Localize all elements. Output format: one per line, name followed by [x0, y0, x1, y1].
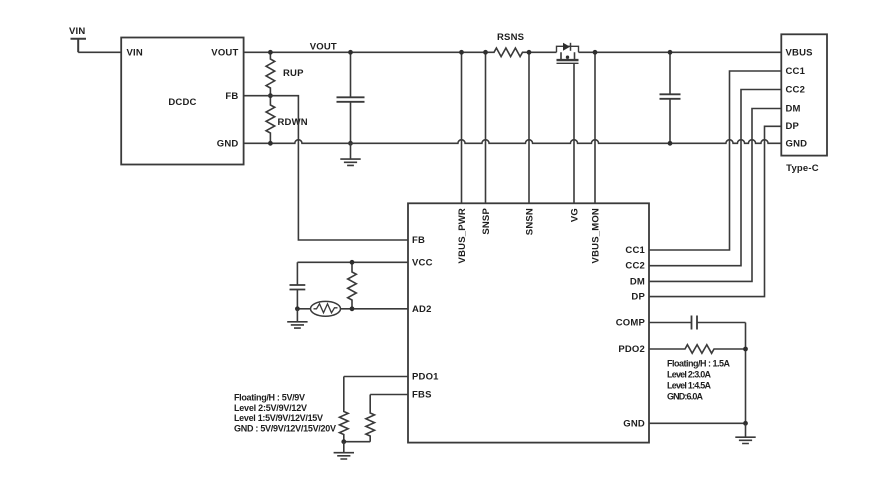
svg-text:DM: DM [786, 104, 801, 115]
svg-text:VCC: VCC [412, 258, 433, 269]
node VOUT/RUP [268, 50, 273, 55]
wire FBS [370, 394, 408, 396]
svg-text:VBUS: VBUS [786, 48, 813, 59]
svg-text:Level 2:5V/9V/12V: Level 2:5V/9V/12V [234, 403, 307, 413]
node PDO2/R6 [743, 347, 748, 352]
PD controller U1 [408, 203, 649, 442]
svg-text:RUP: RUP [283, 68, 304, 79]
node R4/R5 [341, 439, 346, 444]
svg-text:COMP: COMP [616, 318, 646, 329]
wire VBUS_MON tap [594, 52, 596, 203]
svg-text:SNSN: SNSN [525, 208, 536, 235]
ground G2 [296, 309, 298, 322]
svg-text:Floating/H : 1.5A: Floating/H : 1.5A [667, 358, 731, 368]
node AD2/R3 [350, 306, 355, 311]
resistor R6 PDO2 [649, 345, 746, 354]
svg-text:DP: DP [786, 121, 800, 132]
svg-text:Level 2:3.0A: Level 2:3.0A [667, 369, 712, 379]
wire FB node to IC FB pin [270, 96, 408, 240]
svg-text:GND:6.0A: GND:6.0A [667, 391, 704, 401]
svg-text:CC2: CC2 [625, 261, 645, 272]
svg-text:DM: DM [630, 276, 645, 287]
node GND/C2 [668, 141, 673, 146]
node GND join [743, 421, 748, 426]
svg-text:Floating/H : 5V/9V: Floating/H : 5V/9V [234, 393, 305, 403]
svg-text:FB: FB [412, 235, 425, 246]
wire PDO1 [344, 376, 408, 378]
svg-text:FBS: FBS [412, 390, 432, 401]
svg-text:FB: FB [225, 91, 238, 102]
svg-text:RSNS: RSNS [497, 32, 524, 43]
node C3/RT1 [295, 306, 300, 311]
wire VOUT rail [244, 51, 782, 53]
svg-text:DCDC: DCDC [168, 97, 196, 108]
svg-text:VOUT: VOUT [211, 48, 238, 59]
resistor RSNS [486, 48, 530, 57]
wire VIN to DCDC [78, 51, 121, 53]
wire DM [649, 109, 781, 282]
wire SNSP tap [485, 52, 487, 203]
svg-text:PDO1: PDO1 [412, 372, 439, 383]
ground G3 [343, 442, 345, 453]
DCDC converter U2 [121, 38, 243, 165]
svg-text:VBUS_PWR: VBUS_PWR [457, 208, 468, 263]
capacitor C3 [296, 262, 298, 309]
svg-text:DP: DP [631, 292, 645, 303]
svg-text:VOUT: VOUT [310, 42, 337, 53]
svg-text:GND: GND [786, 138, 808, 149]
wire GND of IC [649, 422, 746, 424]
wire thermistor left [297, 308, 310, 310]
wire VG gate [573, 63, 575, 203]
wire COMP/PDO2 join [745, 323, 747, 424]
resistor RDWN [266, 96, 275, 144]
svg-text:VBUS_MON: VBUS_MON [591, 208, 602, 263]
svg-text:PDO2: PDO2 [618, 344, 645, 355]
node VCC/R3 [350, 260, 355, 265]
node FB divider [268, 93, 273, 98]
wire AD2 [341, 308, 409, 310]
wire R4/R5 join [344, 441, 370, 443]
wire DP [649, 126, 781, 296]
svg-text:GND: GND [217, 139, 239, 150]
resistor RUP [266, 52, 275, 95]
Type-C connector J1 [781, 34, 827, 155]
svg-text:CC1: CC1 [625, 245, 645, 256]
wire VCC [297, 261, 408, 263]
resistor R3 VCC-AD2 [348, 262, 357, 309]
wire FB of DCDC to divider [244, 95, 271, 97]
wire COMP [649, 322, 746, 324]
wire SNSN tap [528, 52, 530, 203]
capacitor C1 [350, 52, 352, 143]
svg-text:CC2: CC2 [786, 85, 806, 96]
resistor R5 FBS [366, 395, 375, 442]
svg-text:VIN: VIN [127, 48, 143, 59]
svg-text:Level 1:5V/9V/12V/15V: Level 1:5V/9V/12V/15V [234, 413, 323, 423]
node VBUS/C2 [668, 50, 673, 55]
node GND/C1 [348, 141, 353, 146]
svg-text:AD2: AD2 [412, 304, 432, 315]
svg-text:SNSP: SNSP [481, 208, 492, 235]
node GND/RDWN [268, 141, 273, 146]
wire CC1 [649, 71, 781, 250]
capacitor C4 COMP [692, 316, 698, 330]
wire CC2 [649, 90, 781, 266]
svg-text:RDWN: RDWN [278, 117, 308, 128]
svg-text:Level 1:4.5A: Level 1:4.5A [667, 380, 712, 390]
transistor Q1 load switch [557, 43, 579, 64]
svg-text:CC1: CC1 [786, 66, 806, 77]
ground G4 [745, 423, 747, 437]
terminal VIN [71, 39, 87, 53]
wire VBUS_PWR tap [461, 52, 463, 203]
wire GND rail [244, 140, 781, 144]
svg-text:GND : 5V/9V/12V/15V/20V: GND : 5V/9V/12V/15V/20V [234, 423, 336, 433]
node VOUT/C1 [348, 50, 353, 55]
svg-text:VG: VG [570, 208, 581, 222]
svg-text:VIN: VIN [69, 26, 85, 37]
resistor R4 PDO1 [340, 377, 349, 442]
svg-text:GND: GND [623, 418, 645, 429]
thermistor RT1 [311, 301, 341, 316]
svg-text:Type-C: Type-C [786, 163, 819, 174]
ground G1 [350, 143, 352, 159]
capacitor C2 [669, 52, 671, 143]
